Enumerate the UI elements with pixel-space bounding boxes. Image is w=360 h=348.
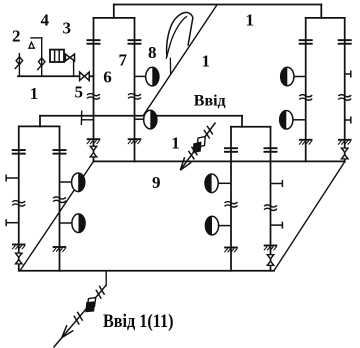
svg-text:1: 1 [202,52,211,71]
svg-text:8: 8 [148,43,157,62]
svg-text:Ввід: Ввід [194,93,226,110]
svg-text:1: 1 [246,10,255,29]
svg-text:6: 6 [103,68,112,87]
svg-text:1: 1 [171,134,180,153]
svg-text:3: 3 [63,19,72,38]
svg-text:1: 1 [30,84,39,103]
svg-text:5: 5 [75,83,84,102]
svg-text:Ввід 1(11): Ввід 1(11) [103,311,174,332]
svg-text:7: 7 [119,51,128,70]
svg-text:9: 9 [152,173,161,192]
svg-text:2: 2 [12,27,21,46]
svg-text:4: 4 [41,11,50,30]
